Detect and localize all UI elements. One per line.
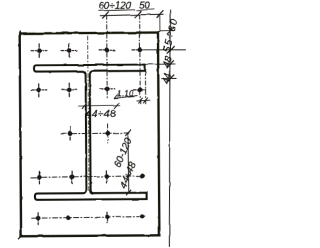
mini dim tick left <box>138 98 142 103</box>
I-beam profile (top flange, web, bottom flange) <box>34 65 147 200</box>
rivet hole r5c3 <box>105 212 110 223</box>
top dim tick c3 <box>103 12 109 18</box>
top dim tick right <box>157 11 163 17</box>
rivet hole r5c2 <box>66 215 71 220</box>
rivet hole r1c1 <box>31 44 47 58</box>
mid dim tick flange <box>126 190 131 195</box>
svg-text:55÷60: 55÷60 <box>162 17 181 54</box>
right chain tick plate-top <box>167 27 174 34</box>
row 4 centerline <box>31 176 146 178</box>
flange end extension line <box>144 72 146 105</box>
column c3 centerline lower <box>107 124 109 143</box>
label 60÷120 underline <box>98 9 135 12</box>
mini dim tick right <box>143 98 147 103</box>
row 5 centerline <box>32 217 147 219</box>
mid dim tick row3 <box>126 130 131 135</box>
rivet hole r2c1 <box>31 84 47 97</box>
rivet hole r2c3 <box>100 86 115 91</box>
right dimension chain line <box>168 10 172 247</box>
plate outline <box>20 33 160 237</box>
slope underline <box>114 96 138 99</box>
rivet hole r4c4 <box>140 174 145 179</box>
svg-text:44: 44 <box>161 71 175 85</box>
column c4 centerline <box>139 15 142 104</box>
right chain extension from plate top <box>158 30 175 32</box>
plate corner overshoot bottom-left <box>18 235 22 239</box>
rivet hole r4c1 <box>37 171 42 184</box>
rivet hole r1c2 <box>61 44 77 58</box>
svg-text:48: 48 <box>161 55 175 69</box>
plate corner overshoot top-left <box>19 31 21 35</box>
rivet hole r1c3 <box>99 48 115 53</box>
label 50 underline <box>137 8 155 11</box>
row 3 centerline <box>61 132 131 135</box>
column c3 centerline upper <box>106 15 109 97</box>
mini dimension line under r2c4 <box>136 99 150 102</box>
right chain extension lower <box>162 77 177 79</box>
top dim tick c4 <box>135 11 141 17</box>
right chain tick flange-top <box>167 61 174 68</box>
right chain extension flange top <box>146 63 176 65</box>
rivet hole r5c1 <box>36 213 41 225</box>
mid vertical dimension line <box>127 133 130 193</box>
rivet hole r4c3 <box>104 171 109 183</box>
right chain tick lower <box>167 75 174 82</box>
rivet hole r2c2 <box>61 83 77 97</box>
rivet hole r2c4 <box>133 87 147 92</box>
row1 extension line to right chain <box>140 49 185 52</box>
right chain tick row1 <box>167 46 174 53</box>
rivet hole r3c3 <box>105 131 110 136</box>
web centerline <box>88 36 89 191</box>
rivet hole r5c4 <box>140 214 145 219</box>
svg-text:44÷48: 44÷48 <box>85 108 116 120</box>
web gauge tick right <box>114 103 119 108</box>
top dimension line <box>100 14 163 16</box>
slope tick <box>114 93 119 98</box>
mid dim tick row4 <box>126 174 131 179</box>
top dim right extension to plate edge <box>159 14 161 31</box>
rivet hole r4c2 <box>70 171 75 184</box>
web gauge dimension line <box>78 104 120 107</box>
rivet hole r3c2 <box>68 127 73 140</box>
web gauge tick left <box>82 103 87 108</box>
rivet hole r1c4 <box>132 47 142 52</box>
